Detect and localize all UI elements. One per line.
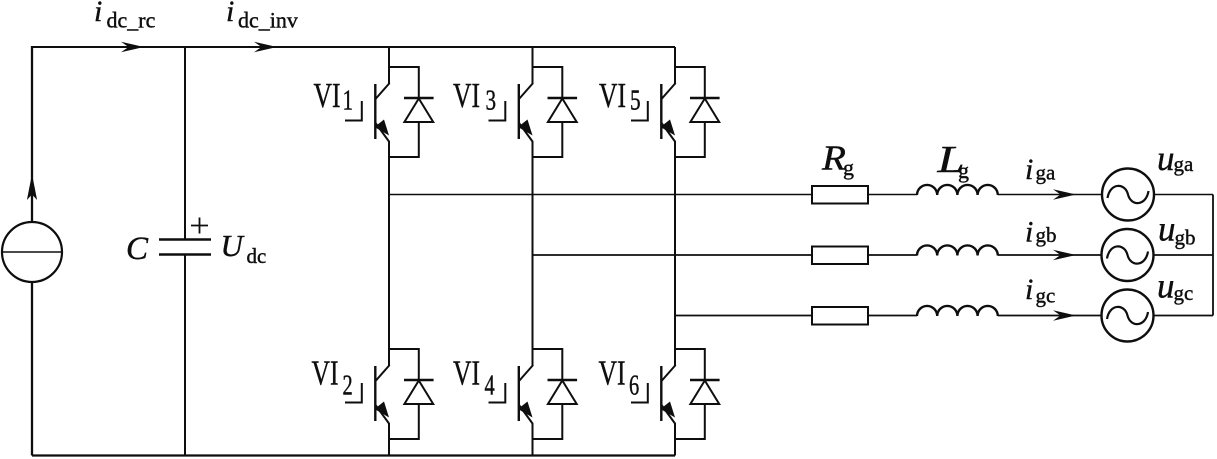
current source diameter line [3, 251, 62, 253]
svg-text:dc_rc: dc_rc [107, 8, 156, 33]
top dc bus wire [32, 46, 675, 48]
inductor Lg phase c [917, 306, 998, 316]
wire source c to right bus [1154, 315, 1214, 317]
svg-text:i: i [1025, 273, 1033, 306]
svg-text:dc_inv: dc_inv [238, 8, 298, 33]
svg-text:VI: VI [599, 76, 626, 115]
wire phase a to resistor [389, 194, 812, 196]
svg-text:i: i [226, 0, 234, 28]
wire VI4 emitter to bottom bus [532, 423, 534, 456]
IGBT VI2 with diode [345, 329, 434, 439]
svg-text:dc: dc [247, 244, 267, 268]
svg-text:VI: VI [453, 76, 480, 115]
ac source u_ga [1102, 169, 1154, 221]
svg-text:i: i [1025, 153, 1033, 186]
svg-text:C: C [126, 231, 149, 267]
svg-text:u: u [1158, 210, 1176, 249]
svg-text:gb: gb [1175, 226, 1196, 250]
svg-text:U: U [221, 228, 246, 263]
arrow i_gb [1053, 250, 1076, 260]
label VI1 [314, 76, 341, 115]
resistor Rg phase c [812, 307, 868, 325]
label L_g [936, 139, 964, 181]
svg-text:ga: ga [1036, 161, 1057, 185]
inductor Lg phase b [917, 245, 998, 255]
wire resistor to inductor b [868, 254, 917, 256]
wire resistor to inductor a [868, 194, 917, 196]
svg-text:gc: gc [1036, 284, 1056, 308]
capacitor branch lower wire [184, 255, 186, 456]
wire VI6 emitter to bottom bus [674, 423, 676, 456]
current source I circle [2, 222, 62, 282]
bottom dc bus wire [32, 454, 675, 456]
wire VI2 emitter to bottom bus [388, 423, 390, 456]
svg-text:i: i [94, 0, 102, 28]
label VI6 [599, 354, 626, 393]
wire phase c to VI6 [674, 316, 676, 367]
svg-text:i: i [1025, 216, 1033, 249]
plus polarity mark [191, 218, 208, 234]
wire inductor b to source [998, 254, 1102, 256]
label VI2 [312, 354, 339, 393]
IGBT VI3 with diode [489, 47, 578, 157]
arrow i_dc_rc on top bus [121, 42, 144, 52]
arrow i_gc [1053, 310, 1076, 320]
label C [126, 231, 149, 267]
svg-text:g: g [843, 155, 854, 180]
label u_ga [1157, 139, 1175, 178]
svg-text:gb: gb [1036, 223, 1057, 247]
svg-text:g: g [958, 158, 969, 183]
IGBT VI4 with diode [489, 329, 578, 439]
wire source a to right bus [1154, 194, 1213, 196]
label i_gc [1025, 273, 1033, 306]
capacitor branch upper wire [184, 46, 186, 239]
wire inductor c to source [998, 315, 1102, 317]
wire VI1 emitter to phase a [388, 141, 390, 195]
wire resistor to inductor c [868, 315, 917, 317]
arrow i_ga [1053, 189, 1076, 199]
label i_dc_rc [94, 0, 102, 28]
label VI5 [599, 76, 626, 115]
right neutral bus wire [1212, 195, 1214, 316]
label i_ga [1025, 153, 1033, 186]
IGBT VI1 with diode [345, 47, 434, 157]
wire VI5 emitter to phase c [674, 141, 676, 316]
resistor Rg phase a [812, 186, 868, 204]
wire VI3 emitter to phase b [532, 141, 534, 255]
svg-text:gc: gc [1174, 281, 1194, 305]
label VI3 [453, 76, 480, 115]
svg-text:ga: ga [1174, 152, 1195, 176]
resistor Rg phase b [812, 247, 868, 265]
svg-text:2: 2 [343, 371, 353, 402]
label U_dc [221, 228, 246, 263]
label i_gb [1025, 216, 1033, 249]
svg-text:1: 1 [343, 84, 354, 116]
left branch wire lower [31, 282, 33, 456]
svg-text:5: 5 [630, 84, 641, 116]
svg-text:VI: VI [312, 354, 339, 393]
svg-text:6: 6 [629, 371, 639, 402]
wire source b to right bus [1154, 254, 1214, 256]
ac source u_gc [1102, 290, 1154, 342]
wire phase b to VI4 [532, 255, 534, 366]
label VI4 [453, 354, 480, 393]
svg-text:VI: VI [599, 354, 626, 393]
wire inductor a to source [998, 194, 1102, 196]
label u_gc [1157, 267, 1175, 306]
label i_dc_inv [226, 0, 234, 28]
capacitor C plates [159, 240, 211, 255]
svg-text:u: u [1157, 267, 1175, 306]
arrow i_dc_inv on top bus [254, 42, 277, 52]
label R_g [821, 139, 846, 178]
svg-text:VI: VI [453, 354, 480, 393]
inductor Lg phase a [917, 185, 998, 195]
wire phase a to VI2 [388, 195, 390, 367]
svg-text:VI: VI [314, 76, 341, 115]
ac source u_gb [1102, 229, 1154, 281]
svg-text:u: u [1157, 139, 1175, 178]
IGBT VI6 with diode [631, 329, 720, 439]
IGBT VI5 with diode [631, 47, 720, 157]
svg-text:3: 3 [486, 84, 497, 116]
wire phase b to resistor [533, 254, 813, 256]
svg-text:4: 4 [485, 371, 495, 402]
wire phase c to resistor [675, 315, 812, 317]
label u_gb [1158, 210, 1176, 249]
left branch wire upper [31, 46, 33, 222]
upward arrow on source branch [27, 174, 37, 200]
